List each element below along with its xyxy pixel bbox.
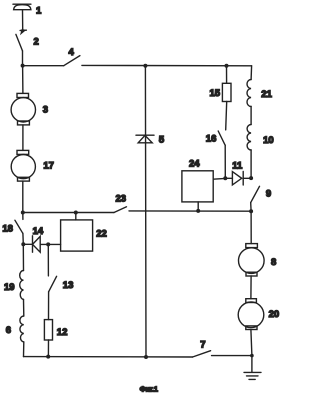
wire between coils 19 and 6 — [23, 300, 25, 317]
node center rail on bottom bus — [144, 355, 148, 359]
node box 24 stub on mid bus — [196, 209, 200, 213]
diode 5 — [136, 135, 154, 143]
node diode 11 right — [249, 176, 253, 180]
node at resistor branch — [225, 64, 229, 68]
wire box 22 top stub — [75, 213, 77, 220]
wire box 24 bottom stub — [197, 202, 199, 211]
svg-text:16: 16 — [206, 134, 217, 145]
wire top bus — [82, 64, 252, 66]
wire machine 20 to ground node — [251, 330, 252, 356]
box 24 — [182, 171, 213, 202]
svg-text:14: 14 — [33, 226, 44, 237]
wire bottom bus right — [212, 355, 252, 357]
wire coil 10 to diode node — [250, 150, 252, 178]
diode 11 — [225, 172, 251, 186]
wire mid bus left — [23, 212, 114, 214]
resistor 15 — [222, 83, 231, 101]
svg-text:Фиг.1: Фиг.1 — [140, 384, 158, 393]
machine 3 — [11, 93, 35, 125]
node mid bus left — [21, 211, 25, 215]
wire diode 14 to box 22 — [48, 243, 60, 245]
svg-text:9: 9 — [266, 189, 271, 200]
center rail wire — [144, 66, 147, 357]
wire switch 13 to resistor 12 — [48, 292, 50, 320]
machine 8 — [239, 244, 265, 276]
inductor 19 — [20, 271, 24, 300]
machine 17 — [11, 150, 35, 181]
svg-text:13: 13 — [63, 280, 74, 291]
inductor 10 — [247, 125, 251, 151]
inductor 6 — [20, 316, 24, 342]
svg-text:22: 22 — [96, 229, 107, 240]
wire machine 3 to machine 17 — [22, 125, 24, 150]
svg-text:2: 2 — [34, 37, 39, 48]
switch 7 blade — [193, 351, 211, 357]
switch 2 — [16, 34, 23, 51]
node mid bus right — [249, 209, 253, 213]
wire node to resistor 15 — [226, 66, 228, 84]
svg-text:15: 15 — [210, 88, 221, 99]
node diode 14 left — [21, 242, 25, 246]
wire top bus corner down to coil 21 — [250, 66, 253, 80]
wire box 24 right to diode node — [213, 177, 225, 180]
svg-text:11: 11 — [232, 160, 243, 171]
inductor 21 — [247, 80, 251, 107]
wire node to switch 13 — [47, 244, 49, 276]
svg-text:4: 4 — [69, 47, 75, 58]
wire node to switch 4 — [23, 65, 64, 67]
node diode 11 left — [223, 176, 227, 180]
machine 20 — [238, 299, 264, 330]
wire switch 9 to mid node — [250, 203, 252, 212]
switch 9 blade — [251, 186, 260, 202]
switch 13 blade — [49, 276, 57, 292]
node resistor 12 on bottom bus — [46, 355, 50, 359]
wire machine 17 to mid bus — [22, 181, 24, 212]
svg-text:21: 21 — [261, 89, 272, 100]
current collector 1 (dome) — [13, 4, 31, 10]
wire switch 18 to diode node — [22, 233, 24, 244]
node box 22 stub — [74, 211, 78, 215]
wire mid bus right — [129, 210, 251, 212]
node diode 14 right — [46, 242, 50, 246]
wire switch 16 to diode node — [224, 145, 226, 178]
wire to ground — [251, 356, 253, 373]
svg-text:19: 19 — [4, 282, 15, 293]
box 22 — [61, 220, 93, 251]
svg-text:23: 23 — [116, 194, 127, 205]
wire switch2 to node — [22, 51, 24, 66]
node at center rail — [143, 64, 147, 68]
wire left rail to coil 19 — [22, 244, 24, 270]
svg-text:24: 24 — [189, 159, 200, 170]
svg-text:5: 5 — [159, 135, 165, 146]
svg-text:17: 17 — [43, 161, 54, 172]
wire node to machine 3 — [22, 66, 24, 94]
svg-text:7: 7 — [200, 339, 205, 350]
svg-text:8: 8 — [271, 257, 276, 268]
wire coil 6 to bottom corner — [23, 342, 25, 357]
switch 18 blade — [15, 220, 23, 233]
wire mid node to machine 8 — [250, 211, 252, 243]
switch 4 blade — [64, 56, 80, 66]
switch 18 stub — [22, 213, 24, 220]
wire machine 8 to machine 20 — [250, 276, 252, 299]
svg-text:1: 1 — [36, 5, 42, 16]
wire between coils — [250, 107, 252, 125]
wire bottom bus left — [24, 356, 193, 358]
svg-text:6: 6 — [6, 325, 11, 336]
svg-text:20: 20 — [269, 309, 280, 320]
resistor 12 — [44, 320, 52, 340]
svg-text:3: 3 — [43, 104, 48, 115]
wire resistor 15 to switch 16 — [226, 102, 227, 130]
wire stem from collector — [22, 10, 24, 30]
arrow tip on stem — [20, 29, 26, 34]
svg-text:10: 10 — [263, 135, 274, 146]
wire resistor 12 to bottom bus — [47, 340, 49, 356]
ground — [244, 372, 261, 379]
diode 14 — [23, 236, 48, 252]
svg-text:12: 12 — [57, 327, 68, 338]
node ground branch — [250, 354, 254, 358]
switch 23 blade — [114, 207, 127, 213]
node: top-left junction — [21, 64, 25, 68]
svg-text:18: 18 — [2, 224, 13, 235]
switch 16 blade — [218, 131, 225, 145]
